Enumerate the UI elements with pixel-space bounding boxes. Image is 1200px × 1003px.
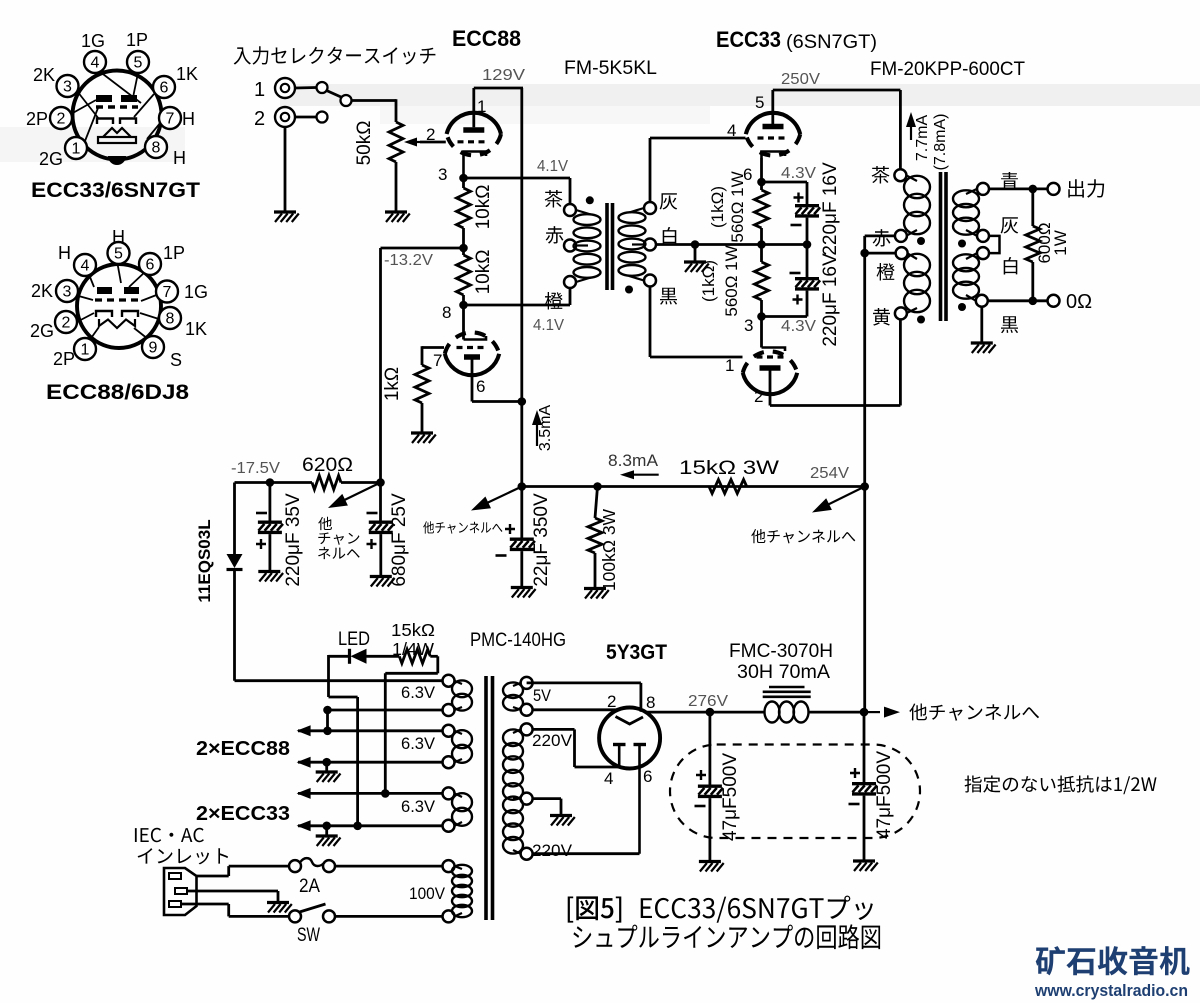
wire plate ECC88b to B+ line: [472, 400, 522, 403]
arrow to other channel 2: [480, 487, 522, 507]
capacitor 220uF upper: [762, 181, 808, 184]
ground input jacks: [274, 212, 299, 222]
svg-text:ECC33: ECC33: [716, 27, 781, 52]
selector switch: [295, 86, 317, 89]
wire pin8 to FM-5K5KL orange: [464, 304, 571, 307]
svg-text:220V: 220V: [532, 842, 572, 860]
svg-text:ECC88: ECC88: [452, 26, 521, 51]
label yellow OPT: [873, 308, 890, 326]
wire black to ECC33b grid: [649, 287, 652, 358]
svg-text:129V: 129V: [482, 67, 525, 84]
svg-text:5: 5: [134, 55, 143, 72]
svg-text:8.3mA: 8.3mA: [608, 452, 658, 470]
svg-text:5: 5: [755, 93, 764, 112]
svg-text:3.5mA: 3.5mA: [537, 405, 554, 452]
svg-text:7: 7: [166, 111, 175, 128]
svg-text:7: 7: [163, 284, 172, 301]
svg-text:4.1V: 4.1V: [537, 158, 568, 175]
wire plate ECC33b to yellow: [770, 404, 900, 407]
svg-text:11EQS03L: 11EQS03L: [195, 519, 214, 602]
svg-text:1: 1: [477, 97, 486, 116]
svg-text:PMC-140HG: PMC-140HG: [470, 630, 566, 651]
svg-text:6.3V: 6.3V: [401, 684, 435, 702]
svg-text:ECC33/6SN7GT: ECC33/6SN7GT: [31, 179, 200, 202]
svg-text:H: H: [58, 243, 71, 263]
svg-text:2P: 2P: [26, 109, 48, 129]
grid wire to 1k resistor: [422, 346, 444, 349]
svg-text:0Ω: 0Ω: [1066, 291, 1092, 313]
svg-text:1G: 1G: [184, 282, 208, 302]
heater row ECC88 b: [297, 757, 311, 768]
svg-text:4.3V: 4.3V: [781, 318, 816, 335]
node 620 output: [376, 478, 385, 487]
svg-text:15kΩ 3W: 15kΩ 3W: [679, 458, 779, 479]
wire black to 0ohm: [988, 299, 1048, 302]
svg-text:4: 4: [604, 769, 613, 788]
resistor 560ohm lower: [755, 262, 769, 300]
svg-text:-17.5V: -17.5V: [231, 460, 280, 477]
svg-text:FM-5K5KL: FM-5K5KL: [564, 58, 657, 79]
svg-text:(1kΩ): (1kΩ): [708, 186, 727, 228]
svg-text:2G: 2G: [39, 149, 63, 169]
svg-text:4.3V: 4.3V: [781, 165, 816, 182]
svg-text:1: 1: [725, 356, 734, 375]
arrow to other channel 1: [337, 483, 381, 504]
node pin8 4.1V: [459, 301, 468, 310]
svg-text:2: 2: [254, 108, 265, 130]
resistor 620ohm: [312, 476, 341, 490]
svg-text:2P: 2P: [53, 349, 75, 369]
label red OPT: [873, 229, 891, 247]
svg-text:H: H: [182, 109, 195, 129]
svg-text:2K: 2K: [31, 281, 53, 301]
label gray OPT: [1001, 217, 1019, 233]
svg-text:6: 6: [643, 767, 652, 786]
svg-text:3: 3: [744, 316, 753, 335]
phase dot primary: [586, 196, 594, 204]
svg-text:SW: SW: [297, 925, 320, 946]
label blue OPT: [1001, 172, 1018, 190]
B+ horizontal rail to 254V: [522, 485, 865, 488]
capacitor 22uF 350V: [505, 524, 515, 534]
svg-text:1: 1: [72, 141, 81, 158]
socket diagram ECC88/6DJ8: [30, 227, 208, 404]
tube ECC88 lower triode: [445, 332, 499, 401]
svg-text:47μF500V: 47μF500V: [720, 753, 741, 841]
svg-text:10kΩ: 10kΩ: [473, 185, 494, 230]
heater row ECC88 a: [297, 725, 311, 736]
node 100k bleeder: [593, 482, 602, 491]
svg-text:1G: 1G: [81, 31, 105, 51]
capacitor 680uF 25V: [379, 483, 382, 521]
label orange: [545, 292, 563, 310]
resistor 15k 3W: [709, 480, 747, 494]
wire white to ground: [656, 243, 695, 246]
svg-text:www.crystalradio.cn: www.crystalradio.cn: [1034, 981, 1188, 1000]
svg-text:8: 8: [166, 311, 175, 328]
svg-text:5: 5: [114, 246, 123, 263]
wire 220V bottom to plate pin6: [533, 852, 640, 855]
wire 220V top to plate pin4: [533, 728, 575, 731]
note resistors 1/2W: [965, 775, 1157, 794]
phase dot secondary: [625, 286, 633, 294]
svg-text:6: 6: [476, 377, 485, 396]
B+ vertical line: [520, 88, 523, 538]
svg-text:2: 2: [426, 125, 435, 144]
ground IEC: [267, 903, 292, 913]
wire 220V CT to ground: [533, 797, 561, 800]
resistor 15k 1/4W: [399, 649, 430, 663]
label gray: [660, 193, 678, 209]
watermark crystalradio logo: [1036, 946, 1190, 975]
resistor 560ohm upper: [760, 182, 763, 190]
svg-text:ECC88/6DJ8: ECC88/6DJ8: [46, 381, 189, 404]
wire inlet to fuse: [197, 875, 229, 878]
svg-text:50kΩ: 50kΩ: [354, 121, 375, 166]
figure caption line 2: [573, 924, 880, 949]
svg-text:2A: 2A: [299, 876, 320, 897]
svg-text:2: 2: [57, 111, 66, 128]
input selector label: [234, 46, 436, 64]
wire -13.2V to 620ohm node: [379, 248, 382, 484]
capacitor 47uF 500V right: [863, 712, 866, 782]
wire black secondary ground: [980, 307, 983, 342]
250V plate rail: [773, 89, 901, 92]
resistor 10k lower: [462, 248, 465, 255]
svg-text:6: 6: [160, 80, 169, 97]
wire 5V bottom to pin2: [533, 708, 619, 711]
svg-text:LED: LED: [338, 629, 370, 650]
svg-text:6.3V: 6.3V: [401, 798, 435, 816]
svg-text:100V: 100V: [409, 885, 445, 903]
wire inlet ground pin: [187, 890, 278, 893]
label white: [663, 227, 677, 245]
svg-text:220V: 220V: [532, 732, 572, 750]
svg-text:(6SN7GT): (6SN7GT): [786, 32, 877, 53]
svg-text:10kΩ: 10kΩ: [473, 250, 494, 295]
svg-text:H: H: [173, 148, 186, 168]
svg-text:220μF 16V: 220μF 16V: [820, 253, 841, 347]
svg-text:4: 4: [81, 258, 90, 275]
svg-text:2: 2: [607, 692, 616, 711]
wire switch to 100V: [335, 915, 443, 918]
svg-text:560Ω 1W: 560Ω 1W: [722, 245, 741, 316]
svg-text:1P: 1P: [126, 30, 148, 50]
resistor 1k grid: [415, 365, 429, 403]
svg-text:4: 4: [91, 55, 100, 72]
svg-text:100kΩ 3W: 100kΩ 3W: [599, 508, 619, 591]
svg-text:1/4W: 1/4W: [392, 639, 434, 659]
svg-text:1kΩ: 1kΩ: [382, 367, 403, 401]
svg-text:47μF500V: 47μF500V: [874, 751, 895, 839]
phase dots FM-20KPP: [917, 237, 925, 245]
tube ECC88 upper triode: [447, 88, 501, 178]
wire brown lead: [569, 178, 572, 204]
wire red-orange CT junction: [865, 234, 895, 237]
IEC AC inlet labels: [135, 828, 204, 842]
arrow to other channel 3: [821, 487, 865, 509]
8.3mA arrow: [630, 474, 659, 476]
svg-text:H: H: [112, 227, 125, 247]
svg-text:1P: 1P: [163, 243, 185, 263]
heater row ECC33 b: [297, 820, 311, 831]
ground pot: [385, 212, 410, 222]
tube ECC33 upper triode: [746, 90, 800, 182]
wire inlet to switch: [181, 903, 229, 906]
arrow to other channel 4: [864, 711, 880, 713]
svg-text:3: 3: [63, 79, 72, 96]
label black OPT: [1001, 316, 1018, 333]
svg-text:4.1V: 4.1V: [533, 317, 564, 334]
svg-text:7: 7: [433, 351, 442, 370]
dashed can outline: [670, 745, 920, 839]
mid rail cathode network: [695, 243, 807, 246]
wire 15k branch right: [430, 655, 438, 658]
svg-text:250V: 250V: [781, 71, 820, 88]
svg-text:1: 1: [254, 79, 265, 101]
label orange OPT: [877, 263, 895, 281]
svg-text:-13.2V: -13.2V: [384, 252, 433, 269]
svg-text:1: 1: [81, 342, 90, 359]
wire orange lead: [569, 288, 572, 305]
wire cathode to FM-5K5KL brown: [464, 177, 571, 180]
ground heater ECC88: [325, 762, 328, 771]
resistor 100k 3W: [588, 518, 602, 553]
svg-text:8: 8: [442, 303, 451, 322]
input jack 1: [275, 78, 295, 98]
svg-text:8: 8: [152, 140, 161, 157]
svg-text:22μF 350V: 22μF 350V: [531, 493, 552, 587]
node B+ 22uF: [518, 482, 527, 491]
IEC AC inlet connector: [164, 868, 197, 915]
svg-text:S: S: [170, 350, 182, 370]
heater row ECC33 a: [297, 788, 311, 799]
svg-text:4: 4: [727, 121, 736, 140]
7.7mA arrow: [910, 122, 912, 140]
label brown: [545, 190, 563, 208]
resistor 10k upper: [462, 178, 465, 188]
input jack 2: [275, 107, 295, 127]
svg-text:FMC-3070H: FMC-3070H: [729, 641, 833, 662]
svg-text:(1kΩ): (1kΩ): [699, 260, 718, 302]
svg-text:3: 3: [63, 284, 72, 301]
wire selector to volume pot: [352, 99, 397, 102]
svg-text:5Y3GT: 5Y3GT: [606, 641, 667, 664]
label black: [660, 288, 677, 305]
capacitor 220uF lower: [790, 272, 801, 275]
heater bias wire from diode: [235, 679, 443, 682]
svg-text:2×ECC33: 2×ECC33: [196, 803, 290, 825]
wire W1 bottom: [328, 709, 443, 712]
output terminal: [1048, 183, 1060, 195]
svg-text:680μF 25V: 680μF 25V: [389, 493, 410, 587]
volume pot 50k: [389, 122, 403, 162]
svg-text:5V: 5V: [533, 687, 551, 705]
svg-text:3: 3: [438, 165, 447, 184]
svg-text:1K: 1K: [185, 319, 207, 339]
3.5mA arrow: [536, 420, 538, 446]
svg-text:8: 8: [646, 693, 655, 712]
svg-text:276V: 276V: [688, 693, 728, 710]
svg-text:2G: 2G: [30, 321, 54, 341]
svg-text:2K: 2K: [33, 65, 55, 85]
figure caption line 1: [568, 896, 622, 922]
svg-text:15kΩ: 15kΩ: [391, 620, 435, 640]
capacitor 220uF 35V: [268, 483, 271, 521]
svg-text:9: 9: [149, 340, 158, 357]
wire jack ground: [284, 127, 287, 211]
node cathode ECC33b: [757, 312, 766, 321]
svg-text:FM-20KPP-600CT: FM-20KPP-600CT: [870, 59, 1025, 80]
svg-text:30H 70mA: 30H 70mA: [737, 662, 830, 683]
diode 11EQS03L: [233, 483, 236, 555]
svg-text:2×ECC88: 2×ECC88: [196, 738, 290, 760]
node cathode ECC33a: [757, 178, 766, 187]
svg-text:220μF 35V: 220μF 35V: [283, 493, 304, 587]
svg-text:1W: 1W: [1051, 230, 1070, 256]
wire plate to B+ line: [474, 87, 523, 90]
fuse 2A: [289, 860, 301, 872]
svg-text:(7.8mA): (7.8mA): [932, 114, 949, 171]
svg-text:7.7mA: 7.7mA: [914, 115, 931, 162]
svg-text:2: 2: [62, 315, 71, 332]
socket diagram ECC33/6SN7GT: [26, 30, 200, 202]
svg-text:220μF 16V: 220μF 16V: [820, 162, 841, 256]
svg-text:1K: 1K: [176, 64, 198, 84]
wire gray to ECC33a grid: [649, 138, 652, 202]
wire fuse to 100V: [335, 865, 443, 868]
capacitor 47uF 500V left: [709, 712, 712, 784]
svg-text:2: 2: [754, 387, 763, 406]
resistor 600ohm load: [1031, 189, 1034, 226]
jumper gray-white secondary: [989, 236, 1000, 253]
label brown OPT: [872, 166, 890, 184]
ground 1k: [411, 433, 436, 443]
svg-text:560Ω 1W: 560Ω 1W: [728, 171, 747, 242]
power switch SW: [289, 910, 301, 922]
ground heater ECC33: [325, 826, 328, 835]
svg-text:6: 6: [146, 257, 155, 274]
node -13.2V: [459, 244, 468, 253]
wire LED branch left: [327, 655, 330, 697]
label white OPT: [1004, 257, 1018, 275]
label red: [546, 226, 564, 244]
svg-text:254V: 254V: [810, 465, 849, 482]
wire blue to output: [989, 187, 1048, 190]
tube ECC33 lower triode: [743, 317, 797, 406]
node cathode ECC88a 4.1V: [459, 174, 468, 183]
wire 5V top to pin8: [527, 682, 641, 685]
B+ CT vertical line: [863, 253, 866, 712]
svg-text:620Ω: 620Ω: [302, 455, 353, 476]
ground white CT: [694, 245, 697, 262]
svg-text:6.3V: 6.3V: [401, 735, 435, 753]
